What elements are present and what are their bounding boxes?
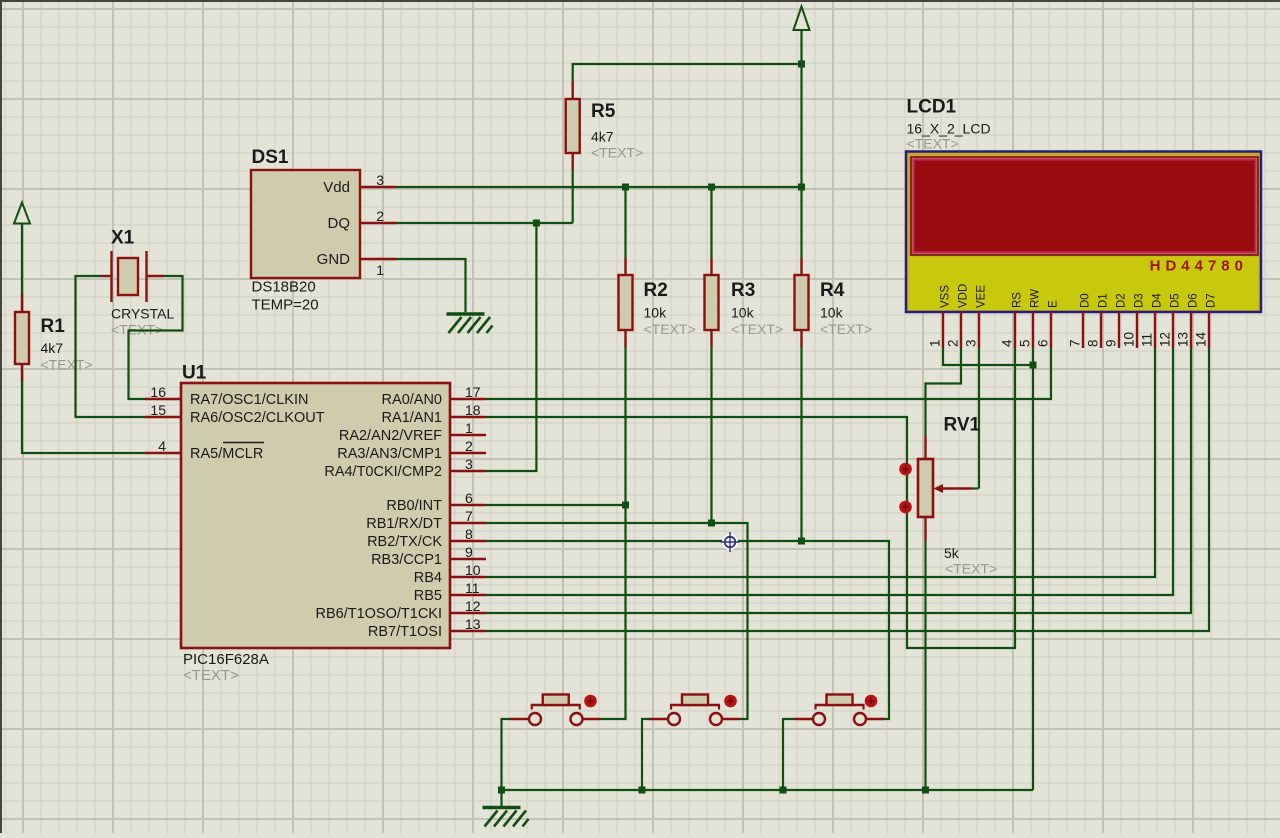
svg-text:R1: R1 bbox=[41, 316, 66, 337]
junction VSS-RW bbox=[1030, 362, 1037, 369]
svg-text:12: 12 bbox=[465, 598, 481, 614]
svg-text:D5: D5 bbox=[1170, 293, 1182, 308]
LCD pin 5 RW bbox=[1018, 289, 1042, 348]
crystal X1 bbox=[101, 228, 174, 338]
junction rail/button1/ground bbox=[498, 787, 505, 794]
svg-text:CRYSTAL: CRYSTAL bbox=[111, 306, 174, 322]
power arrow VCC (top) bbox=[794, 7, 810, 31]
svg-text:RA5/MCLR: RA5/MCLR bbox=[190, 446, 263, 462]
svg-text:9: 9 bbox=[465, 544, 473, 560]
wire R2 bottom to RB0 and button 1 bbox=[600, 347, 626, 719]
svg-text:R4: R4 bbox=[820, 280, 845, 301]
svg-text:<TEXT>: <TEXT> bbox=[183, 667, 239, 684]
svg-text:2: 2 bbox=[946, 339, 961, 347]
svg-text:D4: D4 bbox=[1152, 293, 1164, 308]
LCD pin 13 D6 bbox=[1176, 293, 1200, 348]
junction rail/button2 bbox=[639, 787, 646, 794]
U1 pin 13 RB7/T1OSI bbox=[368, 616, 486, 640]
svg-text:6: 6 bbox=[1036, 339, 1051, 347]
svg-text:10k: 10k bbox=[644, 305, 668, 321]
wire DQ net y=223 bbox=[396, 170, 573, 223]
svg-text:RB4: RB4 bbox=[414, 570, 442, 586]
svg-text:1: 1 bbox=[376, 262, 384, 278]
svg-text:DS1: DS1 bbox=[252, 147, 289, 168]
wire VCC vertical x=801 down to R4 bbox=[800, 30, 802, 258]
svg-text:<TEXT>: <TEXT> bbox=[41, 357, 93, 373]
junction R2 top bbox=[622, 184, 629, 191]
svg-text:<TEXT>: <TEXT> bbox=[907, 136, 959, 152]
LCD pin 7 D0 bbox=[1068, 293, 1092, 348]
resistor R3 10k bbox=[705, 258, 784, 347]
LCD pin 1 VSS bbox=[928, 285, 952, 348]
svg-text:RB6/T1OSO/T1CKI: RB6/T1OSO/T1CKI bbox=[315, 606, 442, 622]
svg-text:DS18B20: DS18B20 bbox=[252, 279, 316, 296]
svg-text:VEE: VEE bbox=[976, 285, 988, 308]
U1 pin 16 RA7/OSC1/CLKIN bbox=[145, 384, 308, 408]
svg-text:2: 2 bbox=[376, 208, 384, 224]
svg-text:8: 8 bbox=[465, 526, 473, 542]
svg-text:LCD1: LCD1 bbox=[907, 97, 957, 118]
push button 2 bbox=[649, 695, 740, 726]
svg-text:18: 18 bbox=[465, 402, 481, 418]
svg-text:3: 3 bbox=[465, 456, 473, 472]
button 2 marker bbox=[724, 695, 737, 708]
svg-text:16_X_2_LCD: 16_X_2_LCD bbox=[907, 121, 991, 137]
svg-text:14: 14 bbox=[1194, 331, 1209, 347]
svg-text:4k7: 4k7 bbox=[41, 340, 64, 356]
wire VDD to RV1 top bbox=[926, 348, 962, 436]
svg-text:R3: R3 bbox=[731, 280, 755, 301]
LCD pin 3 VEE bbox=[964, 285, 988, 348]
LCD pin 2 VDD bbox=[946, 284, 970, 348]
svg-text:6: 6 bbox=[465, 490, 473, 506]
pin 1 GND stub bbox=[360, 259, 396, 278]
svg-text:16: 16 bbox=[150, 384, 166, 400]
wire R3 bottom to RB1 bbox=[710, 347, 712, 523]
svg-text:3: 3 bbox=[964, 339, 979, 347]
svg-text:PIC16F628A: PIC16F628A bbox=[183, 651, 269, 668]
svg-text:1: 1 bbox=[465, 420, 473, 436]
svg-text:17: 17 bbox=[465, 384, 481, 400]
U1 pin 7 RB1/RX/DT bbox=[366, 508, 486, 532]
resistor R4 10k bbox=[795, 258, 873, 347]
svg-text:11: 11 bbox=[1140, 333, 1155, 347]
svg-text:RB5: RB5 bbox=[414, 588, 442, 604]
svg-text:3: 3 bbox=[376, 172, 384, 188]
svg-text:RB3/CCP1: RB3/CCP1 bbox=[371, 552, 442, 568]
svg-text:GND: GND bbox=[317, 251, 351, 268]
svg-text:13: 13 bbox=[1176, 332, 1191, 347]
svg-text:VDD: VDD bbox=[958, 284, 970, 308]
junction R3 top bbox=[708, 184, 715, 191]
svg-text:RS: RS bbox=[1012, 292, 1024, 308]
junction rail/RV1 bbox=[922, 787, 929, 794]
wire RB0 net bbox=[486, 502, 629, 509]
wire DQ branch down to RA4 bbox=[486, 223, 536, 471]
wire VCC top horizontal to R5 bbox=[573, 64, 802, 82]
ground symbol (bottom) bbox=[483, 808, 529, 827]
wire RB5 to LCD D5 bbox=[486, 348, 1173, 595]
wire RB7 to LCD D7 bbox=[486, 348, 1209, 631]
U1 pin 1 RA2/AN2/VREF bbox=[339, 420, 486, 444]
wire RA0 to LCD E bbox=[486, 348, 1051, 399]
LCD pin 6 E bbox=[1036, 300, 1060, 348]
wire R4 bottom to RB2 bbox=[800, 347, 802, 541]
LCD pin 10 D3 bbox=[1122, 293, 1146, 348]
svg-text:2: 2 bbox=[465, 438, 473, 454]
svg-text:Vdd: Vdd bbox=[323, 179, 350, 196]
wire ground stem bbox=[500, 790, 502, 806]
button 3 marker bbox=[865, 695, 878, 708]
microcontroller U1 PIC16F628A bbox=[181, 363, 450, 685]
svg-text:RV1: RV1 bbox=[944, 415, 981, 436]
svg-text:4k7: 4k7 bbox=[591, 129, 614, 145]
svg-text:RA3/AN3/CMP1: RA3/AN3/CMP1 bbox=[337, 446, 442, 462]
wire RW down to ground rail bbox=[1032, 348, 1034, 790]
LCD pin 4 RS bbox=[1000, 292, 1024, 348]
svg-text:4: 4 bbox=[1000, 339, 1015, 347]
push button 3 bbox=[794, 695, 884, 726]
svg-text:VSS: VSS bbox=[940, 285, 952, 308]
U1 pin 4 RA5/MCLR bbox=[145, 438, 264, 462]
svg-text:8: 8 bbox=[1086, 339, 1101, 347]
U1 pin 12 RB6/T1OSO/T1CKI bbox=[315, 598, 486, 622]
svg-text:5: 5 bbox=[1018, 339, 1033, 347]
U1 pin 6 RB0/INT bbox=[386, 490, 486, 514]
wire R1 bottom to U1 pin 4 bbox=[22, 380, 145, 453]
svg-text:<TEXT>: <TEXT> bbox=[731, 321, 783, 337]
svg-text:10k: 10k bbox=[820, 305, 844, 321]
svg-text:<TEXT>: <TEXT> bbox=[591, 145, 643, 161]
wire RB6 to LCD D6 bbox=[486, 348, 1191, 613]
svg-text:D2: D2 bbox=[1116, 293, 1128, 308]
svg-text:D3: D3 bbox=[1134, 293, 1146, 308]
wire button1 left to ground rail bbox=[502, 719, 511, 790]
svg-text:10: 10 bbox=[1122, 332, 1137, 347]
svg-text:RA4/T0CKI/CMP2: RA4/T0CKI/CMP2 bbox=[324, 464, 442, 480]
svg-text:E: E bbox=[1048, 300, 1060, 308]
wire RV1 bottom to ground rail bbox=[924, 541, 926, 790]
svg-text:1: 1 bbox=[928, 339, 943, 347]
U1 pin 2 RA3/AN3/CMP1 bbox=[337, 438, 486, 462]
LCD pin 12 D5 bbox=[1158, 293, 1182, 348]
RV1 adjust marker bottom bbox=[899, 501, 912, 514]
svg-text:RB1/RX/DT: RB1/RX/DT bbox=[366, 516, 442, 532]
svg-text:9: 9 bbox=[1104, 339, 1119, 347]
svg-text:7: 7 bbox=[1068, 339, 1083, 347]
wire X1 right to U1 pin 16 bbox=[129, 276, 183, 399]
LCD pin 14 D7 bbox=[1194, 293, 1218, 348]
wire ground rail y=790 bbox=[502, 789, 1034, 791]
svg-text:<TEXT>: <TEXT> bbox=[644, 321, 696, 337]
junction DQ branch bbox=[533, 220, 540, 227]
RV1 adjust marker top bbox=[899, 463, 912, 476]
wire VCC arrow to R1 bbox=[21, 224, 23, 298]
sensor DS1 DS18B20 bbox=[251, 147, 360, 314]
button 1 marker bbox=[584, 695, 597, 708]
svg-text:10k: 10k bbox=[731, 305, 755, 321]
svg-text:U1: U1 bbox=[182, 363, 207, 384]
junction R4 top bbox=[798, 184, 805, 191]
svg-text:12: 12 bbox=[1158, 332, 1173, 347]
svg-text:R5: R5 bbox=[591, 101, 616, 122]
svg-text:DQ: DQ bbox=[328, 215, 351, 232]
U1 pin 18 RA1/AN1 bbox=[382, 402, 486, 426]
U1 pin 11 RB5 bbox=[414, 580, 486, 604]
wire R2 top bbox=[624, 187, 626, 258]
wire VDD rail y=187 bbox=[396, 186, 802, 188]
wire RA1 to LCD RS bbox=[486, 348, 1015, 648]
push button 1 bbox=[510, 695, 601, 726]
svg-text:4: 4 bbox=[158, 438, 166, 454]
ground symbol (DS1) bbox=[447, 314, 493, 333]
LCD pin 11 D4 bbox=[1140, 293, 1164, 348]
svg-text:11: 11 bbox=[465, 580, 480, 596]
pin 3 Vdd stub bbox=[360, 172, 396, 188]
svg-text:RA0/AN0: RA0/AN0 bbox=[382, 392, 442, 408]
svg-text:D1: D1 bbox=[1098, 293, 1110, 308]
wire button2 left to ground rail bbox=[642, 719, 649, 790]
potentiometer RV1 5k bbox=[918, 415, 997, 577]
wire RB2 net to button 3 bbox=[486, 538, 889, 720]
U1 pin 9 RB3/CCP1 bbox=[371, 544, 486, 568]
resistor R2 10k bbox=[619, 258, 696, 347]
pin 2 DQ stub bbox=[360, 208, 396, 224]
wire X1 left to U1 pin 15 bbox=[76, 276, 146, 417]
wire R3 top bbox=[710, 187, 712, 258]
svg-text:15: 15 bbox=[150, 402, 166, 418]
svg-text:RA6/OSC2/CLKOUT: RA6/OSC2/CLKOUT bbox=[190, 410, 325, 426]
svg-text:<TEXT>: <TEXT> bbox=[945, 561, 997, 577]
svg-text:7: 7 bbox=[465, 508, 473, 524]
svg-text:RA7/OSC1/CLKIN: RA7/OSC1/CLKIN bbox=[190, 392, 308, 408]
svg-text:RW: RW bbox=[1030, 289, 1042, 308]
svg-text:D6: D6 bbox=[1188, 293, 1200, 308]
svg-text:RB2/TX/CK: RB2/TX/CK bbox=[367, 534, 442, 550]
svg-text:RB0/INT: RB0/INT bbox=[386, 498, 442, 514]
power arrow VCC (left) bbox=[14, 203, 30, 224]
LCD1 16_X_2_LCD module bbox=[906, 97, 1261, 313]
svg-text:<TEXT>: <TEXT> bbox=[820, 321, 872, 337]
svg-text:D0: D0 bbox=[1080, 293, 1092, 308]
svg-text:X1: X1 bbox=[111, 228, 135, 249]
U1 pin 15 RA6/OSC2/CLKOUT bbox=[145, 402, 325, 426]
svg-text:D7: D7 bbox=[1206, 293, 1218, 308]
svg-text:RA1/AN1: RA1/AN1 bbox=[382, 410, 442, 426]
U1 pin 10 RB4 bbox=[414, 562, 486, 586]
origin marker (blue) bbox=[721, 532, 740, 552]
svg-text:13: 13 bbox=[465, 616, 481, 632]
wire button3 left to ground rail bbox=[783, 719, 794, 790]
wire RB1 net to button 2 bbox=[486, 520, 748, 720]
svg-text:TEMP=20: TEMP=20 bbox=[252, 297, 319, 314]
wire RB4 to LCD D4 bbox=[486, 348, 1155, 577]
svg-text:R2: R2 bbox=[644, 280, 668, 301]
svg-text:HD44780: HD44780 bbox=[1150, 258, 1248, 275]
wire VEE to RV1 wiper bbox=[978, 348, 980, 489]
LCD pin 9 D2 bbox=[1104, 293, 1128, 348]
wire VSS to RW/ground net bbox=[943, 348, 1033, 365]
svg-text:10: 10 bbox=[465, 562, 481, 578]
svg-text:RA2/AN2/VREF: RA2/AN2/VREF bbox=[339, 428, 442, 444]
resistor R1 4k7 bbox=[15, 295, 93, 381]
junction at (801.5,64) bbox=[798, 61, 805, 68]
U1 pin 17 RA0/AN0 bbox=[382, 384, 486, 408]
svg-text:RB7/T1OSI: RB7/T1OSI bbox=[368, 624, 442, 640]
svg-text:5k: 5k bbox=[944, 545, 960, 561]
U1 pin 3 RA4/T0CKI/CMP2 bbox=[324, 456, 486, 480]
wire DS1 GND to ground bbox=[396, 259, 466, 312]
junction rail/button3 bbox=[780, 787, 787, 794]
U1 pin 8 RB2/TX/CK bbox=[367, 526, 486, 550]
resistor R5 4k7 bbox=[566, 82, 643, 170]
LCD pin 8 D1 bbox=[1086, 293, 1110, 348]
